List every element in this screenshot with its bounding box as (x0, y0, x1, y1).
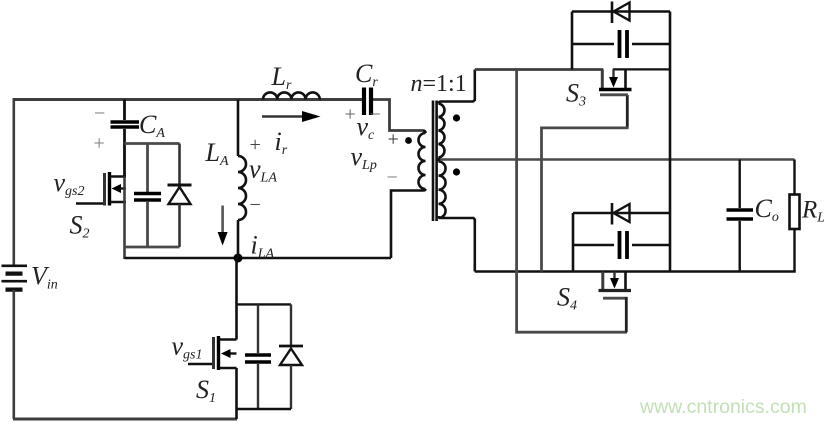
svg-text:−: − (94, 103, 105, 125)
resistor RL (790, 160, 800, 272)
wire S2 drain-source vertical (123, 177, 126, 260)
svg-text:vgs2: vgs2 (54, 168, 85, 199)
wire top rail (13, 98, 362, 101)
wire left vertical upper (13, 98, 16, 265)
inductor Lr (263, 92, 320, 99)
svg-text:−: − (387, 167, 398, 189)
wire S1 source vertical (235, 368, 238, 419)
battery Vin (2, 266, 28, 290)
capacitor S1 snubber (245, 304, 271, 409)
svg-text:ir: ir (275, 127, 288, 158)
wire bottom rail (13, 418, 237, 421)
node secondary dot upper (453, 114, 460, 121)
capacitor S4 parallel (573, 231, 670, 259)
svg-text:iLA: iLA (251, 231, 275, 262)
svg-text:CA: CA (139, 110, 165, 141)
svg-text:+: + (250, 134, 261, 156)
mosfet S1 (188, 336, 237, 370)
transformer core (433, 101, 437, 222)
wire secondary bottom lead (441, 218, 475, 272)
wire S1 snubber box top (237, 303, 292, 305)
transformer secondary winding upper (439, 102, 445, 160)
svg-text:+: + (94, 133, 105, 155)
wire S2 snubber box top (125, 142, 180, 145)
capacitor Co (727, 160, 754, 272)
wire S1 snubber box bottom (237, 408, 292, 410)
wire Cr to transformer (373, 100, 423, 131)
transformer primary winding (391, 131, 426, 259)
wire S1 drain vertical (235, 258, 238, 340)
node junction iLA (234, 254, 243, 263)
inductor LA (238, 100, 246, 259)
wire S3 gate lead (626, 95, 629, 128)
svg-text:Vin: Vin (31, 262, 58, 293)
wire S3 combo right vertical (669, 12, 672, 272)
diode S2 body (168, 144, 192, 248)
wire S3 combo left vertical (571, 12, 574, 70)
svg-text:n=1:1: n=1:1 (411, 71, 467, 97)
arrow iLA (218, 206, 228, 246)
arrow ir (262, 111, 321, 122)
wire secondary top lead (441, 70, 475, 102)
svg-text:S1: S1 (196, 375, 216, 406)
svg-text:−: − (250, 194, 261, 216)
svg-text:+: + (388, 129, 399, 151)
diode S3 body top (572, 2, 670, 24)
capacitor CA (111, 100, 140, 178)
diode S1 body (279, 304, 303, 409)
svg-text:www.cntronics.com: www.cntronics.com (639, 396, 807, 418)
wire left vertical lower (13, 290, 16, 419)
capacitor Cr (364, 88, 371, 116)
svg-text:Cr: Cr (355, 59, 378, 90)
node secondary dot lower (453, 168, 460, 175)
diode S4 body top (573, 203, 670, 225)
wire S4 gate riser (517, 70, 627, 333)
svg-text:LA: LA (205, 138, 229, 169)
wire center tap rail (440, 158, 795, 160)
transformer secondary winding lower (439, 160, 446, 219)
capacitor S2 snubber (134, 144, 161, 248)
svg-text:vLp: vLp (351, 142, 377, 173)
wire S2 snubber box bottom (125, 246, 180, 249)
mosfet S4 (599, 272, 632, 333)
node primary dot (405, 137, 412, 144)
svg-text:S4: S4 (557, 283, 577, 314)
svg-text:S2: S2 (70, 211, 90, 242)
mosfet S3 (599, 69, 670, 94)
svg-text:Co: Co (755, 194, 779, 225)
wire mid rail (125, 257, 392, 260)
mosfet S2 (76, 172, 126, 206)
svg-text:+: + (345, 104, 356, 126)
svg-text:−: − (370, 104, 381, 126)
svg-text:vgs1: vgs1 (172, 332, 203, 363)
svg-text:RL: RL (801, 197, 824, 226)
svg-text:Lr: Lr (271, 62, 292, 93)
svg-text:vLA: vLA (249, 155, 277, 186)
wire top node S3 drain (475, 68, 604, 71)
wire S4 combo left vertical (572, 213, 575, 272)
wire output bottom rail (475, 270, 796, 273)
svg-text:S3: S3 (566, 79, 586, 110)
capacitor S3 parallel (572, 30, 670, 58)
